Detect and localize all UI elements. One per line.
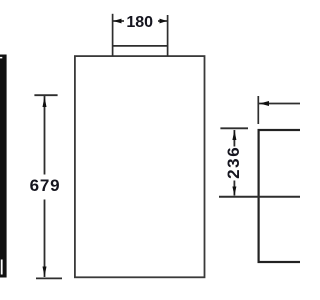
svg-text:180: 180 — [126, 14, 153, 31]
svg-text:679: 679 — [30, 176, 61, 195]
svg-text:236: 236 — [224, 146, 243, 179]
